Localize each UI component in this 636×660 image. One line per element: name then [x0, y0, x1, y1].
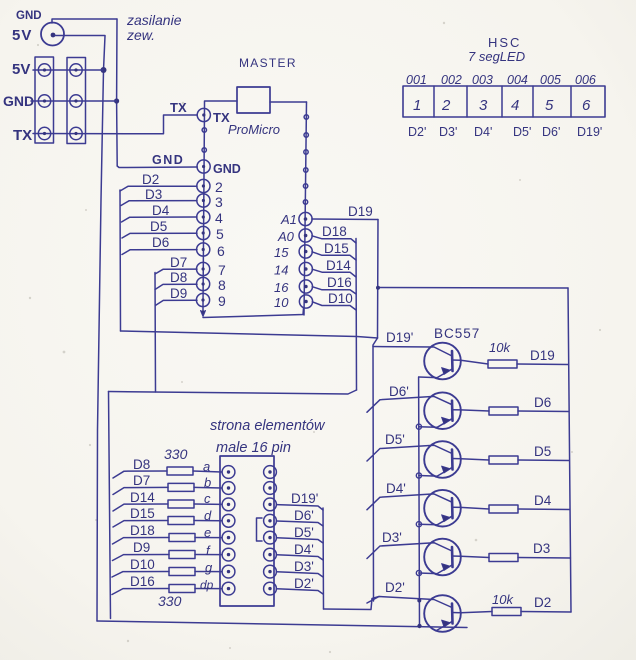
resistor R-a 330: [167, 467, 193, 475]
svg-text:D19': D19': [386, 330, 413, 345]
wire USB left to TX pin: [205, 101, 238, 109]
node Q5 emitter junction: [416, 570, 421, 575]
pin 8 ProMicro: [197, 277, 210, 290]
svg-text:d: d: [204, 508, 212, 523]
svg-text:g: g: [205, 560, 213, 575]
svg-text:10k: 10k: [492, 592, 514, 607]
pin 3 socket left: [222, 498, 235, 511]
svg-text:GND: GND: [16, 10, 42, 22]
svg-text:2: 2: [441, 97, 451, 114]
svg-text:D4: D4: [152, 203, 170, 218]
table divider 3: [501, 86, 503, 117]
wire D19 net from A1: [312, 218, 378, 221]
wire socket bracket bottom to transistor base bus: [324, 597, 380, 610]
svg-text:BC557: BC557: [434, 326, 480, 341]
wire Q1 collector to resistor: [461, 360, 488, 364]
svg-text:D16: D16: [130, 574, 155, 589]
wire D16 net from 16: [312, 287, 356, 294]
pin 7 ProMicro: [197, 262, 210, 275]
connector J2 pin-header column 2: [67, 58, 86, 144]
wire base Q3: [367, 445, 452, 461]
svg-text:10: 10: [274, 295, 289, 310]
wire D6 label to pin 6: [122, 250, 197, 255]
pin 7 socket left: [222, 565, 235, 578]
table divider 2: [466, 86, 468, 117]
wire Q2 resistor to right bus: [518, 410, 569, 413]
pin via right 2: [304, 133, 308, 137]
svg-text:D18: D18: [130, 523, 155, 538]
pin 8 socket left: [222, 582, 235, 595]
svg-text:D6': D6': [542, 125, 560, 139]
svg-text:D8: D8: [170, 270, 187, 285]
pin J2 TX right: [70, 127, 82, 139]
pin 10 socket right: [264, 565, 277, 578]
svg-text:D8: D8: [133, 457, 150, 472]
transistor Q1 BC557: [424, 343, 461, 380]
svg-text:D9: D9: [170, 286, 187, 301]
svg-text:TX: TX: [13, 127, 32, 144]
wire D15 net from 15: [312, 252, 356, 260]
wire Q3 collector to resistor: [461, 459, 489, 460]
svg-text:D5': D5': [513, 125, 531, 139]
wire bus D2-D6 vertical: [119, 190, 122, 331]
wire bus D7-D9 vertical down to board outline: [154, 273, 157, 393]
svg-text:7 segLED: 7 segLED: [468, 49, 525, 64]
svg-text:D4': D4': [386, 481, 406, 496]
transistor Q5 BC557: [424, 539, 461, 576]
table divider 1: [433, 86, 435, 117]
svg-text:D7: D7: [133, 473, 150, 488]
resistor R-b 330: [168, 483, 194, 491]
pin J2 GND left: [38, 95, 50, 107]
wire TX row to step: [33, 115, 197, 134]
transistor Q4 BC557: [424, 490, 461, 527]
component IC socket male 16 pin: [220, 456, 274, 606]
wire lower board outline left edge: [109, 392, 111, 619]
pin via right 3: [304, 150, 308, 154]
svg-text:5V: 5V: [12, 27, 32, 44]
pin via left 1: [202, 128, 206, 132]
pin 14 socket right: [264, 498, 277, 511]
svg-text:10k: 10k: [489, 340, 511, 355]
pin 16 socket right: [264, 466, 277, 479]
node Q3 emitter junction: [416, 473, 421, 478]
pin 4 ProMicro: [197, 210, 210, 223]
pin 3 ProMicro: [197, 194, 210, 207]
wire D8 label to pin 8: [155, 284, 197, 289]
svg-text:male 16 pin: male 16 pin: [216, 440, 291, 456]
wire Q2 emitter stub: [419, 426, 437, 429]
resistor RQ6 10k: [492, 608, 521, 616]
svg-text:D3: D3: [533, 541, 550, 556]
wire D19 vertical: [377, 220, 380, 339]
svg-text:005: 005: [540, 73, 561, 87]
pin 1 socket left: [222, 466, 235, 479]
node T6 base crossing emitter bus: [417, 599, 421, 603]
svg-text:zasilanie: zasilanie: [126, 12, 182, 28]
wire row D15/d with hook: [113, 521, 222, 528]
svg-text:5: 5: [545, 97, 554, 114]
svg-text:5: 5: [216, 226, 224, 242]
wire closing bottom of ProMicro columns: [203, 308, 304, 318]
wire D7 label to pin 7: [155, 269, 197, 274]
wire Q3 emitter stub: [419, 475, 437, 478]
pin 15 socket right: [264, 482, 277, 495]
svg-text:MASTER: MASTER: [239, 56, 297, 70]
svg-text:D4': D4': [294, 542, 314, 557]
svg-text:D2: D2: [142, 172, 159, 187]
label zasilanie zew.: [126, 12, 182, 43]
wire transistor emitter bus vertical: [418, 377, 421, 627]
wire D9 label to pin 9: [155, 300, 197, 305]
pin J2 5V right: [70, 64, 82, 76]
svg-text:D7: D7: [170, 255, 187, 270]
wire Q2 collector to resistor: [461, 410, 489, 411]
pin 5 socket left: [222, 531, 235, 544]
node feed junction: [376, 286, 380, 290]
svg-text:1: 1: [413, 97, 421, 114]
wire GND net to pin: [117, 166, 197, 168]
svg-text:4: 4: [511, 97, 519, 114]
pin 11 socket right: [264, 548, 277, 561]
wire D2' from socket: [277, 589, 324, 594]
wire socket-side bracket vertical: [322, 508, 325, 609]
wire row D14/c with hook: [113, 504, 222, 511]
resistor R-e 330: [169, 534, 195, 542]
svg-text:330: 330: [164, 446, 188, 462]
wire Q1 emitter stub: [419, 376, 437, 379]
svg-text:D9: D9: [133, 540, 150, 555]
svg-text:3: 3: [479, 97, 488, 114]
wire long feed to right-side bus: [378, 287, 568, 290]
svg-text:D14: D14: [326, 258, 351, 273]
wire base Q5: [367, 543, 452, 559]
pin 12 socket right: [264, 531, 277, 544]
transistor Q3 BC557: [424, 441, 461, 478]
pin 9 ProMicro: [196, 293, 209, 306]
resistor R-c 330: [168, 500, 194, 508]
resistor RQ2 10k: [489, 407, 518, 415]
wire base Q2: [367, 396, 452, 412]
svg-text:D16: D16: [327, 275, 352, 290]
svg-text:006: 006: [575, 73, 596, 87]
svg-text:ProMicro: ProMicro: [228, 122, 280, 137]
resistor RQ3 10k: [489, 456, 518, 464]
pin 6 ProMicro: [197, 243, 210, 256]
wire D2 label to pin 2: [120, 186, 197, 191]
pin J2 GND right: [70, 95, 82, 107]
transistor Q6 BC557: [424, 595, 461, 632]
wire base Q6: [367, 597, 452, 608]
resistor RQ5 10k: [489, 554, 518, 562]
svg-text:zew.: zew.: [126, 27, 155, 43]
wire right-side vertical bus: [568, 288, 571, 612]
wire D14 net from 14: [312, 269, 356, 277]
svg-text:4: 4: [215, 210, 223, 226]
resistor R-d 330: [168, 517, 194, 525]
pin TX ProMicro: [197, 108, 210, 121]
svg-text:D2': D2': [408, 125, 426, 139]
svg-text:D18: D18: [322, 224, 347, 239]
node emitter bus to bottom return: [417, 624, 421, 628]
wire bracket vertical D18-D10 down to board outline: [355, 239, 358, 391]
svg-text:004: 004: [507, 73, 528, 87]
pin via right 4: [304, 168, 308, 172]
wire lower board outline top edge: [109, 390, 357, 394]
svg-text:TX: TX: [170, 100, 187, 115]
wire D19' from socket: [277, 505, 324, 510]
table HSC 7segLED outline: [403, 86, 605, 117]
svg-text:2: 2: [215, 179, 223, 195]
svg-text:D3': D3': [382, 530, 402, 545]
svg-text:D3': D3': [294, 559, 314, 574]
pin A1 ProMicro: [299, 212, 312, 225]
svg-text:D5: D5: [150, 219, 167, 234]
table divider 5: [570, 86, 572, 117]
pin 13 socket right: [264, 514, 277, 527]
wire ProMicro left pin column: [203, 109, 205, 306]
svg-text:D19: D19: [530, 348, 555, 363]
wire D4' from socket: [277, 555, 324, 560]
resistor R-dp 330: [169, 585, 195, 593]
wire D5' from socket: [277, 538, 324, 543]
svg-text:14: 14: [274, 263, 288, 278]
svg-text:D6: D6: [534, 395, 551, 410]
wire 5V long outer vertical down left side: [97, 36, 105, 621]
wire row D10/g with hook: [112, 572, 222, 578]
svg-text:D19': D19': [291, 491, 318, 506]
pin GND ProMicro: [197, 160, 210, 173]
wire Q1 resistor to right bus: [517, 363, 568, 366]
svg-text:9: 9: [218, 293, 226, 309]
pin via right 1: [304, 115, 308, 119]
svg-text:A1: A1: [280, 212, 297, 227]
resistor RQ1 10k: [488, 360, 517, 368]
pin via left 2: [202, 148, 206, 152]
svg-text:D4: D4: [534, 493, 552, 508]
svg-text:D10: D10: [130, 557, 155, 572]
svg-text:002: 002: [441, 73, 462, 87]
pin via right 5: [303, 184, 307, 188]
node Q2 emitter junction: [416, 424, 421, 429]
svg-text:001: 001: [406, 73, 427, 87]
pin 14 ProMicro: [299, 262, 312, 275]
svg-text:D6': D6': [389, 384, 409, 399]
svg-text:GND: GND: [152, 153, 184, 167]
svg-text:a: a: [203, 459, 210, 474]
wire D18 net from A0: [312, 236, 356, 243]
bracket marker inside socket: [257, 518, 263, 541]
svg-text:e: e: [204, 525, 211, 540]
pin 2 ProMicro: [197, 179, 210, 192]
wire row D18/e with hook: [113, 538, 222, 545]
wire base Q4: [367, 494, 452, 510]
wire GND row: [31, 100, 116, 102]
pin J2 TX left: [38, 127, 50, 139]
pin 6 socket left: [222, 548, 235, 561]
svg-text:15: 15: [274, 245, 289, 260]
svg-text:strona elementów: strona elementów: [210, 418, 326, 434]
pin 16 ProMicro: [299, 280, 312, 293]
wire Q3 resistor to right bus: [518, 459, 569, 462]
svg-text:GND: GND: [3, 93, 34, 109]
wire row D9/f with hook: [113, 555, 222, 561]
svg-text:D5': D5': [385, 432, 405, 447]
svg-text:D10: D10: [328, 291, 353, 306]
svg-text:dp: dp: [200, 578, 214, 592]
node Q4 emitter junction: [416, 522, 421, 527]
wire D3' from socket: [277, 572, 324, 577]
wire D3 label to pin 3: [121, 201, 197, 206]
svg-text:003: 003: [472, 73, 493, 87]
svg-text:D2: D2: [534, 595, 551, 610]
wire transistor base bus vertical: [373, 338, 378, 601]
wire row D7/b with hook: [113, 487, 222, 494]
wire Q6 collector to resistor: [461, 612, 492, 613]
pin via right 6: [303, 200, 307, 204]
wire base Q1: [373, 347, 452, 357]
transistor Q2 BC557: [424, 392, 461, 429]
svg-text:D5: D5: [534, 444, 551, 459]
resistor RQ4 10k: [489, 505, 518, 513]
svg-text:b: b: [204, 475, 211, 490]
resistor R-f 330: [169, 551, 195, 559]
connector J2 pin-header column 1: [35, 57, 54, 143]
wire cross link D2-D6 bus to D19' bus: [121, 331, 378, 338]
svg-text:16: 16: [274, 280, 289, 295]
svg-text:6: 6: [217, 243, 225, 259]
pin 5 ProMicro: [197, 226, 210, 239]
wire Q4 emitter stub: [419, 523, 437, 526]
pin A0 ProMicro: [299, 229, 312, 242]
connector J1 barrel jack: [41, 23, 64, 46]
svg-text:D5': D5': [294, 525, 314, 540]
wire row D8/a with hook: [113, 471, 222, 478]
svg-text:7: 7: [218, 262, 226, 278]
wire row D16/dp with hook: [112, 589, 222, 595]
pin 4 socket left: [222, 514, 235, 527]
pin 15 ProMicro: [299, 245, 312, 258]
svg-text:D3: D3: [145, 187, 162, 202]
wire Q5 collector to resistor: [461, 556, 489, 557]
svg-text:D3': D3': [439, 125, 457, 139]
wire bottom return bus: [97, 621, 467, 628]
svg-text:8: 8: [218, 277, 226, 293]
table divider 4: [532, 86, 534, 117]
svg-text:5V: 5V: [12, 61, 30, 78]
wire jack 5V to outer vertical: [55, 35, 105, 37]
svg-text:D2': D2': [385, 580, 405, 595]
svg-text:D14: D14: [130, 490, 155, 505]
node GND-row junction: [114, 98, 119, 103]
svg-text:A0: A0: [277, 229, 295, 244]
wire D4 label to pin 4: [122, 217, 198, 222]
wire 5V row: [33, 69, 103, 71]
svg-text:D6': D6': [294, 508, 314, 523]
resistor R-g 330: [169, 568, 195, 576]
pin 10 ProMicro: [299, 295, 312, 308]
wire Q5 resistor to right bus: [518, 557, 570, 560]
svg-text:D19: D19: [348, 204, 373, 219]
svg-text:D15: D15: [130, 506, 155, 521]
wire ProMicro right pin column: [304, 102, 307, 315]
wire GND vertical drop to connector row and GND pin: [116, 19, 119, 166]
wire Q4 collector to resistor: [461, 507, 489, 509]
arrow below pin 9: [201, 306, 206, 317]
svg-text:D2': D2': [294, 576, 314, 591]
svg-text:D6: D6: [152, 235, 169, 250]
wire Q6 resistor to right bus: [521, 611, 571, 614]
svg-text:D15: D15: [324, 241, 349, 256]
wire D10 net from 10: [312, 302, 356, 310]
svg-text:330: 330: [158, 593, 182, 609]
wire D6' from socket: [277, 521, 324, 526]
svg-text:D19': D19': [577, 125, 602, 139]
svg-text:GND: GND: [213, 162, 241, 176]
svg-text:c: c: [204, 491, 211, 506]
svg-text:3: 3: [215, 194, 223, 210]
wire USB right to right pin column: [270, 101, 307, 103]
svg-text:6: 6: [582, 97, 591, 114]
wire jack GND up and right: [52, 19, 117, 23]
wire Q4 resistor to right bus: [518, 508, 570, 511]
wire D5 label to pin 5: [122, 233, 197, 238]
pin J2 5V left: [38, 64, 50, 76]
svg-text:HSC: HSC: [488, 35, 521, 50]
pin 2 socket left: [222, 482, 235, 495]
node 5V-row junction: [101, 67, 107, 73]
component USB connector of ProMicro: [237, 87, 270, 113]
wire Q5 emitter stub: [419, 572, 437, 575]
svg-text:D4': D4': [474, 125, 492, 139]
pin 9 socket right: [264, 582, 277, 595]
